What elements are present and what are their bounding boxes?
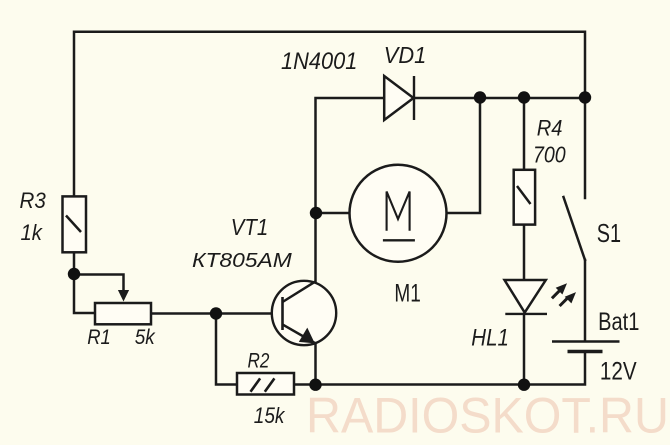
svg-text:5k: 5k bbox=[135, 326, 156, 349]
svg-text:15k: 15k bbox=[254, 404, 286, 429]
svg-text:КТ805АМ: КТ805АМ bbox=[192, 248, 293, 272]
svg-text:R2: R2 bbox=[248, 349, 270, 373]
svg-text:R4: R4 bbox=[537, 116, 563, 141]
svg-text:1k: 1k bbox=[21, 220, 44, 245]
svg-text:RADIOSKOT.RU: RADIOSKOT.RU bbox=[306, 388, 669, 444]
svg-text:VD1: VD1 bbox=[384, 42, 426, 68]
svg-text:1N4001: 1N4001 bbox=[281, 47, 357, 74]
svg-text:R1: R1 bbox=[87, 326, 111, 349]
svg-text:M1: M1 bbox=[394, 279, 420, 307]
svg-text:VT1: VT1 bbox=[231, 214, 268, 240]
svg-text:Bat1: Bat1 bbox=[598, 307, 639, 336]
svg-text:R3: R3 bbox=[20, 187, 46, 213]
svg-text:HL1: HL1 bbox=[471, 324, 509, 351]
svg-text:700: 700 bbox=[533, 142, 566, 168]
svg-text:12V: 12V bbox=[600, 356, 637, 384]
svg-text:S1: S1 bbox=[597, 218, 621, 247]
